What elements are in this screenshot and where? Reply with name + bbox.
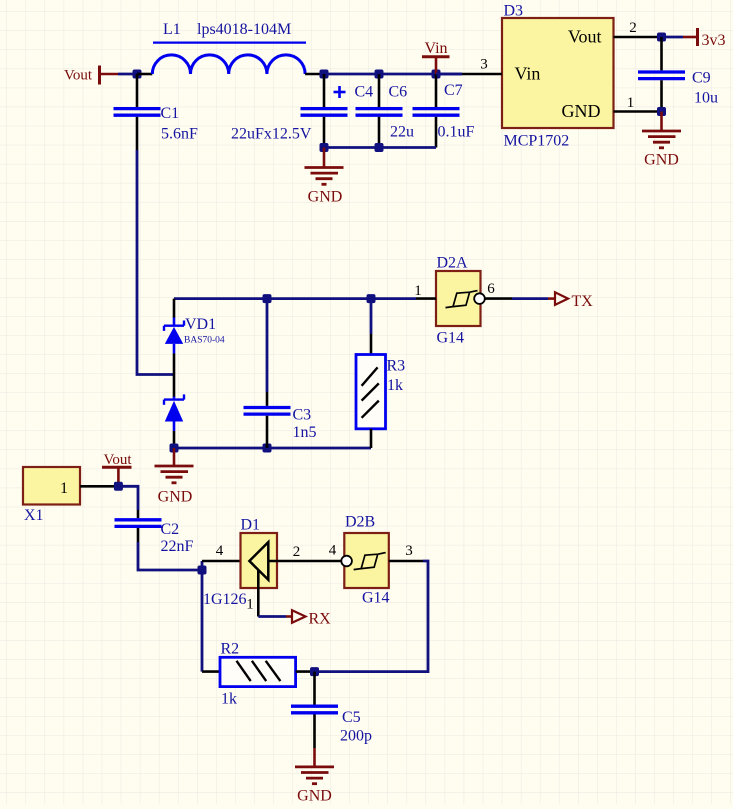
svg-text:Vin: Vin xyxy=(515,64,541,84)
junction R2 / C5 / D2B loop xyxy=(310,667,319,676)
svg-text:6: 6 xyxy=(487,281,495,297)
svg-text:L1: L1 xyxy=(163,21,181,38)
pin 3 of D3 xyxy=(462,73,502,76)
pin 1 of D3 xyxy=(614,110,662,113)
wire D2B pin3 down to R2 row xyxy=(315,561,429,672)
junction C2 / D1 / R2 xyxy=(198,566,207,575)
junction R3 top xyxy=(367,294,376,303)
schmitt buffer D2B G14 xyxy=(344,514,389,607)
wire TX row (VD1 top to D2A pin1) xyxy=(174,297,416,300)
svg-text:Vout: Vout xyxy=(103,452,132,468)
svg-text:Vout: Vout xyxy=(64,68,93,84)
schmitt buffer D2A G14 xyxy=(436,255,481,347)
capacitor C1 xyxy=(114,74,199,150)
capacitor C2 xyxy=(115,510,194,555)
svg-text:Vout: Vout xyxy=(568,27,602,47)
svg-text:1: 1 xyxy=(246,597,254,613)
port Vout (top left power port) xyxy=(64,66,118,85)
junction C3 top xyxy=(263,294,272,303)
ground GND under C4 xyxy=(305,148,344,206)
pin 2 of D3 xyxy=(614,36,662,39)
inverter bubble pin 4 of D2B xyxy=(341,556,352,567)
svg-text:lps4018-104M: lps4018-104M xyxy=(197,21,291,38)
pin 1 of R2 xyxy=(202,670,220,673)
svg-text:R3: R3 xyxy=(387,358,406,375)
svg-text:C5: C5 xyxy=(342,709,361,726)
inductor L1 xyxy=(137,21,324,74)
svg-text:C4: C4 xyxy=(355,84,374,101)
svg-text:2: 2 xyxy=(629,20,637,36)
svg-text:RX: RX xyxy=(309,611,332,628)
svg-text:MCP1702: MCP1702 xyxy=(504,133,570,150)
svg-text:G14: G14 xyxy=(437,330,465,347)
svg-text:1k: 1k xyxy=(221,691,237,708)
svg-text:Vin: Vin xyxy=(424,40,447,57)
capacitor C6 xyxy=(356,74,415,148)
junction X1 / Vout / C2 xyxy=(114,482,123,491)
port TX xyxy=(548,292,593,310)
svg-text:2: 2 xyxy=(293,544,301,560)
svg-text:TX: TX xyxy=(572,293,594,310)
svg-text:GND: GND xyxy=(308,189,343,206)
pin 2 of R2 xyxy=(296,670,315,673)
node A junction (Vout / L1 / C1) xyxy=(133,70,142,79)
svg-text:C9: C9 xyxy=(692,70,711,87)
pin 2 of D1 to D2B pin 4 xyxy=(268,560,341,563)
node B junction (C4 top) xyxy=(320,70,329,79)
svg-text:200p: 200p xyxy=(340,728,372,745)
junction C9 bottom xyxy=(657,107,666,116)
svg-text:D2A: D2A xyxy=(437,255,469,272)
svg-text:C1: C1 xyxy=(161,105,180,122)
svg-text:GND: GND xyxy=(562,101,601,121)
svg-text:3: 3 xyxy=(405,543,413,559)
pin 6 of D2A xyxy=(485,297,512,300)
resistor R3 xyxy=(356,299,405,448)
svg-text:1: 1 xyxy=(627,95,635,111)
port 3v3 power port xyxy=(683,28,726,49)
capacitor C3 xyxy=(244,299,317,448)
junction C6 bottom xyxy=(375,143,384,152)
svg-text:22nF: 22nF xyxy=(161,538,194,555)
svg-text:D1: D1 xyxy=(241,517,261,534)
wire bottom bus of VD1 section xyxy=(174,447,371,450)
svg-text:1k: 1k xyxy=(387,377,403,394)
capacitor C4 xyxy=(231,74,373,148)
port Vout (bottom power port) xyxy=(102,452,132,486)
svg-text:GND: GND xyxy=(297,788,332,805)
junction VD1 anode / GND xyxy=(170,444,179,453)
wire C1 down to VD1 mid node xyxy=(137,150,174,375)
svg-text:1G126: 1G126 xyxy=(203,591,247,608)
svg-text:GND: GND xyxy=(644,152,679,169)
wire top bus L1 to D3 xyxy=(324,73,462,76)
wire X1 node to C2 xyxy=(118,486,138,510)
svg-text:G14: G14 xyxy=(362,590,390,607)
svg-text:C7: C7 xyxy=(444,82,463,99)
wire pin2 junction to 3v3 port xyxy=(662,36,684,39)
svg-text:3: 3 xyxy=(480,56,488,72)
svg-text:3v3: 3v3 xyxy=(702,32,726,49)
wire Vin node to D3 pin 3 xyxy=(436,73,462,76)
capacitor C9 xyxy=(638,37,718,112)
svg-text:C3: C3 xyxy=(293,407,312,424)
svg-text:0.1uF: 0.1uF xyxy=(438,124,475,141)
connector X1 xyxy=(23,467,80,524)
svg-text:10u: 10u xyxy=(694,90,718,107)
svg-text:1: 1 xyxy=(60,480,68,497)
pin 1 of X1 xyxy=(80,485,118,488)
pin 3 of D2B xyxy=(389,560,423,563)
wire C2 to D1 junction xyxy=(138,542,202,570)
ground GND under VD1 xyxy=(155,448,194,506)
junction C9 top xyxy=(657,33,666,42)
svg-text:4: 4 xyxy=(216,543,224,559)
svg-text:1: 1 xyxy=(414,283,422,299)
port Vin (power port above C7) xyxy=(422,40,450,74)
wire junction riser to pin 4 row xyxy=(201,561,204,570)
pin 1 of D1 down to RX xyxy=(257,570,260,617)
svg-text:BAS70-04: BAS70-04 xyxy=(184,336,225,346)
node Vin junction (C7 top) xyxy=(432,70,441,79)
junction C3 bottom xyxy=(263,444,272,453)
capacitor C7 xyxy=(413,74,475,148)
svg-text:1n5: 1n5 xyxy=(293,424,317,441)
pin 1 of D2A xyxy=(416,297,436,300)
svg-text:4: 4 xyxy=(329,543,337,559)
svg-text:C6: C6 xyxy=(389,84,408,101)
wire D1 pin1 to RX port xyxy=(258,615,286,618)
wire capacitor bottom bus xyxy=(324,146,436,149)
wire C2 junction down to R2 xyxy=(201,570,204,672)
ground GND under C9 xyxy=(642,112,681,169)
svg-text:22u: 22u xyxy=(390,124,414,141)
junction C4 bottom xyxy=(320,143,329,152)
svg-text:C2: C2 xyxy=(161,521,180,538)
wire D2A pin6 to TX port xyxy=(512,297,548,300)
ground GND under C5 xyxy=(295,748,334,805)
resistor R2 xyxy=(220,641,296,708)
svg-text:X1: X1 xyxy=(24,507,44,524)
capacitor C5 xyxy=(291,672,372,748)
wire Vout port to node A xyxy=(118,73,137,76)
pin 4 of D1 xyxy=(202,560,249,563)
regulator D3 MCP1702 xyxy=(502,3,614,150)
diode pair VD1 BAS70-04 xyxy=(164,299,225,448)
svg-text:D2B: D2B xyxy=(345,514,375,531)
svg-text:VD1: VD1 xyxy=(185,316,216,333)
svg-text:5.6nF: 5.6nF xyxy=(161,126,198,143)
svg-text:R2: R2 xyxy=(221,641,240,658)
buffer D1 1G126 xyxy=(203,517,277,609)
node C junction (C6 top) xyxy=(375,70,384,79)
port RX xyxy=(286,610,331,627)
svg-text:GND: GND xyxy=(158,489,193,506)
svg-text:22uFx12.5V: 22uFx12.5V xyxy=(231,126,312,143)
inverter bubble pin 6 xyxy=(474,293,485,304)
